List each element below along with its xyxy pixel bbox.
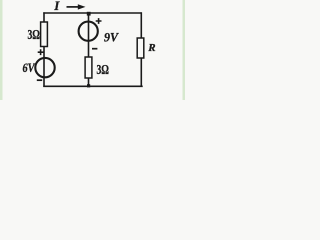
voltage source 9V (circle) [79, 22, 98, 41]
wire: middle branch vertical [88, 12, 90, 87]
wire: left branch vertical [43, 12, 45, 87]
value label 3Ω (middle) [97, 62, 110, 77]
resistor 3Ω (left branch) [41, 22, 48, 47]
svg-text:R: R [147, 42, 155, 54]
wire: right branch vertical [140, 12, 142, 87]
svg-text:3Ω: 3Ω [28, 27, 41, 42]
current label I [53, 0, 60, 13]
polarity + of 6V source [38, 49, 44, 55]
wire: top net from left branch to right branch [43, 12, 141, 14]
svg-text:I: I [53, 0, 60, 13]
value label 6V [23, 61, 36, 75]
value label 3Ω (left) [28, 27, 41, 42]
junction node on bottom wire at middle branch [87, 84, 90, 87]
junction node on top wire at middle branch [87, 12, 91, 16]
svg-text:6V: 6V [23, 61, 36, 75]
resistor R (right branch) [137, 38, 144, 58]
voltage source 6V (circle) [35, 58, 54, 77]
wire: bottom net from left branch to right branch [43, 85, 142, 87]
current direction arrow [67, 4, 86, 9]
svg-text:9V: 9V [104, 29, 119, 44]
polarity + of 9V source [96, 18, 102, 24]
reference label R [147, 42, 155, 54]
svg-text:3Ω: 3Ω [97, 62, 110, 77]
resistor 3Ω (middle branch) [85, 57, 92, 78]
polarity - of 6V source [37, 79, 42, 81]
polarity - of 9V source [92, 48, 97, 50]
value label 9V [104, 29, 119, 44]
